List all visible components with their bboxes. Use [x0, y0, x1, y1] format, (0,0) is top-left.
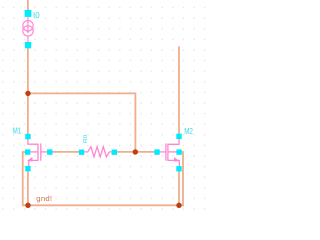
svg-text:R0: R0: [83, 135, 89, 143]
svg-text:M1: M1: [13, 126, 22, 136]
svg-text:M2: M2: [184, 126, 193, 136]
svg-text:gnd!: gnd!: [36, 194, 52, 203]
svg-text:I0: I0: [33, 11, 40, 20]
